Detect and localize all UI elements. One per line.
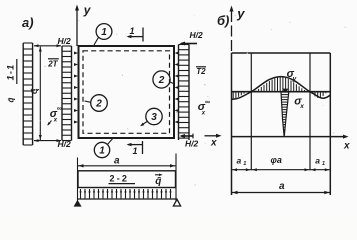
svg-text:1: 1: [101, 27, 107, 38]
svg-text:1: 1: [133, 146, 138, 156]
svg-text:2Т: 2Т: [47, 60, 58, 69]
svg-text:∞: ∞: [205, 99, 210, 106]
svg-text:2-2: 2-2: [110, 174, 130, 184]
svg-text:Т2: Т2: [196, 67, 206, 76]
svg-text:1-1: 1-1: [6, 64, 16, 81]
svg-text:1: 1: [99, 145, 105, 156]
svg-text:Н/2: Н/2: [58, 139, 72, 149]
svg-text:б): б): [217, 13, 229, 28]
svg-text:2: 2: [95, 98, 102, 109]
svg-text:1: 1: [243, 161, 246, 167]
svg-text:1: 1: [130, 26, 135, 36]
svg-text:у: у: [83, 3, 92, 17]
svg-text:Н/2: Н/2: [185, 139, 199, 149]
svg-text:х: х: [299, 103, 304, 110]
svg-text:Н/2: Н/2: [190, 30, 204, 40]
svg-text:а: а: [315, 156, 320, 166]
svg-text:3: 3: [151, 112, 157, 123]
svg-text:у: у: [236, 6, 245, 21]
svg-text:а: а: [237, 156, 242, 166]
svg-text:х: х: [53, 118, 58, 124]
svg-text:q̄: q̄: [155, 176, 161, 187]
svg-text:х: х: [343, 141, 350, 152]
svg-text:а: а: [114, 156, 120, 167]
svg-text:2: 2: [158, 75, 165, 86]
svg-text:Н/2: Н/2: [58, 36, 72, 46]
svg-text:х: х: [210, 138, 217, 149]
svg-text:∞: ∞: [57, 106, 62, 113]
svg-text:а: а: [279, 181, 285, 192]
svg-text:1: 1: [322, 161, 325, 167]
svg-text:q̄: q̄: [7, 97, 16, 102]
svg-text:х: х: [201, 111, 206, 117]
svg-text:φа: φа: [271, 155, 282, 165]
svg-text:у: у: [292, 76, 297, 83]
svg-text:б: б: [29, 88, 39, 94]
